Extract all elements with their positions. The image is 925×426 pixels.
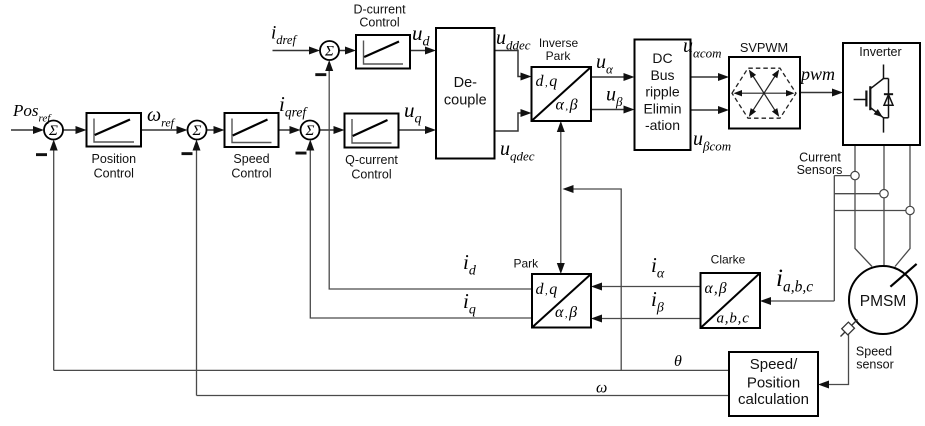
wire Pos_ref input [11,129,34,131]
speed sensor square [841,320,858,337]
block Q-current Control [345,114,399,148]
svg-text:pwm: pwm [799,64,835,84]
svg-text:Σ: Σ [305,123,315,139]
wire i_d feedback Park to sum4 [329,69,532,289]
block DC Bus ripple Elimination [635,40,691,151]
svg-text:PMSM: PMSM [860,293,907,310]
svg-text:Speed: Speed [856,345,892,359]
svg-text:Speed: Speed [233,152,269,166]
wire i_beta Clarke to Park [600,318,701,320]
wire sensor bus vertical [833,176,835,301]
block Speed/Position calculation [729,352,818,416]
wire pwm SVPWM to Inverter [800,92,834,94]
wire phase A inverter to PMSM [855,145,872,267]
wire sum1 to Position Control [63,129,78,131]
minus sign at S1 [36,153,47,156]
block Position Control [87,113,142,147]
wire omega main feedback [197,395,730,397]
wire u_beta_com DC Bus to SVPWM [691,109,721,111]
PMSM shaft line [890,264,916,287]
svg-text:Elimin: Elimin [643,101,681,117]
svg-text:Control: Control [231,166,271,180]
svg-text:Control: Control [351,168,391,182]
wire phase C inverter to PMSM [895,145,910,267]
SVPWM hexagon [732,68,796,118]
wire theta to sum1 [53,149,55,371]
svg-text:Sensors: Sensors [797,163,843,177]
summing junction S3 [301,121,320,140]
svg-text:D-current: D-current [353,3,406,17]
block Inverter [843,43,920,145]
svg-text:SVPWM: SVPWM [740,40,788,55]
wire u_qdec Decouple to Inverse Park lower [495,113,523,131]
block SVPWM [729,57,800,129]
wire u_ddec Decouple to Inverse Park upper [495,51,523,77]
block Clarke [701,273,761,328]
svg-text:Σ: Σ [192,123,202,139]
svg-text:Park: Park [513,257,539,271]
wire u_q Q-current Control to Decouple [399,129,428,131]
wire u_d D-current Control to Decouple [410,50,427,52]
IGBT symbol [854,65,894,133]
svg-text:Inverter: Inverter [859,45,901,59]
wire omega_ref Position Control to sum2 [141,129,179,131]
svg-text:DC: DC [652,50,672,66]
wire speed sensor to calculation block [827,331,849,385]
wire u_alpha Inverse Park to DC Bus [591,76,626,78]
wire sum4 to D-current Control [339,50,347,52]
svg-text:couple: couple [444,93,487,109]
svg-text:Clarke: Clarke [711,253,746,267]
svg-text:α,β: α,β [705,280,728,297]
svg-text:Q-current: Q-current [345,153,398,167]
svg-text:Σ: Σ [48,123,58,139]
svg-text:Position: Position [747,375,800,392]
wire sensor tap B [834,193,880,195]
svg-text:ripple: ripple [645,84,679,100]
wire i_abc to Clarke [769,300,834,302]
wire sensor tap C [834,210,906,212]
svg-text:-ation: -ation [645,117,680,133]
current sensor circle C [906,206,914,214]
wire phase B inverter to PMSM [883,145,885,266]
svg-text:calculation: calculation [738,391,809,408]
block Decouple [436,28,495,159]
minus sign at S2 [182,152,193,155]
wire u_alpha_com DC Bus to SVPWM [691,76,721,78]
current sensor circle B [880,190,888,198]
wire i_qref Speed Control to sum3 [279,129,292,131]
wire u_beta Inverse Park to DC Bus [591,109,626,111]
block Inverse Park [532,67,592,121]
wire theta vertical Inverse Park / Park [560,130,562,265]
svg-text:sensor: sensor [856,358,894,372]
svg-text:Park: Park [546,49,572,63]
svg-text:ω: ω [596,380,607,397]
wire theta main feedback [54,369,729,371]
svg-text:Control: Control [359,16,399,30]
wire theta branch to Park node [572,189,622,370]
summing junction S4 [320,41,339,60]
wire sum3 to Q-current Control [320,129,336,131]
svg-text:De-: De- [454,75,478,91]
svg-text:Inverse: Inverse [539,36,579,50]
block D-current Control [356,35,410,69]
summing junction S1 [44,121,63,140]
summing junction S2 [188,121,207,140]
wire i_q feedback Park to sum3 [310,149,532,319]
block Speed Control [225,113,279,147]
svg-text:Bus: Bus [650,67,674,83]
svg-text:Σ: Σ [324,44,334,60]
PMSM motor circle [849,266,917,334]
svg-text:Speed/: Speed/ [750,356,798,373]
wire i_alpha Clarke to Park [600,286,701,288]
wire sensor tap A [834,175,851,177]
svg-text:θ: θ [674,353,682,370]
minus sign at S4 [315,73,326,76]
svg-text:Position: Position [92,152,137,166]
block Park [532,274,591,328]
wire omega to sum2 [196,149,198,396]
current sensor circle A [851,171,859,179]
svg-text:a,b,c: a,b,c [717,311,750,327]
minus sign at S3 [296,152,307,155]
wire sum2 to Speed Control [207,129,216,131]
SVPWM space vectors [740,92,765,94]
wire i_dref input [273,50,312,52]
svg-text:Control: Control [94,166,134,180]
